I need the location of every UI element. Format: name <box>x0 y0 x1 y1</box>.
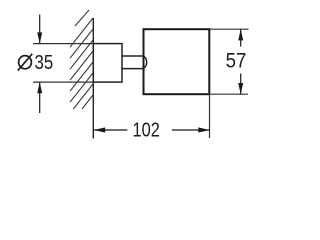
dim Ø35 diameter symbol <box>18 54 32 71</box>
dim 102 left arrow <box>94 127 127 132</box>
svg-text:57: 57 <box>226 49 247 72</box>
wall hatching <box>70 10 93 109</box>
dim Ø35 extension line top <box>33 43 93 45</box>
dim Ø35 top arrow <box>37 15 42 44</box>
dim 57 extension line top <box>209 28 248 30</box>
svg-text:35: 35 <box>35 51 54 74</box>
stem end dome arc <box>144 56 147 69</box>
escutcheon (wall rosette) <box>93 44 122 83</box>
dim 57 upper arrow <box>238 29 243 46</box>
dim 57 extension line bottom <box>209 93 248 95</box>
dim Ø35 bottom arrow <box>37 82 42 113</box>
cup holder body <box>144 29 210 94</box>
stem bottom line <box>122 68 144 70</box>
stem top line <box>122 55 144 57</box>
svg-text:102: 102 <box>133 118 160 141</box>
dim Ø35 extension line bottom <box>33 81 93 83</box>
dim 102 right arrow <box>172 127 210 132</box>
wall face line <box>92 18 94 139</box>
dim 57 lower arrow <box>238 74 243 95</box>
dim 102 right extension line <box>209 94 211 138</box>
